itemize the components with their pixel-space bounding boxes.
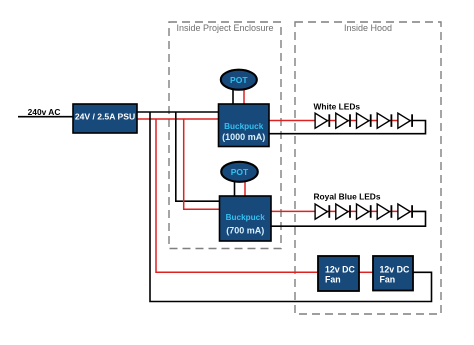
wire POT2 black lead [234,181,236,197]
svg-text:Inside Project Enclosure: Inside Project Enclosure [176,23,273,33]
royal blue LED D7 [336,204,350,219]
fan M1 (12v DC) [318,256,359,291]
svg-text:12v DC: 12v DC [380,265,410,275]
svg-text:(1000 mA): (1000 mA) [222,132,265,142]
wire PSU black output to Buckpuck 1000mA [137,111,219,113]
svg-text:White LEDs: White LEDs [314,102,361,112]
white LED D2 [336,113,350,128]
PSU 24V/2.5A [73,104,137,133]
Buckpuck driver U2 (700 mA) [220,196,272,241]
wire POT1 red lead [243,89,245,105]
potentiometer POT2 [221,162,258,182]
wire red Buckpuck2 output through royal blue LED string [271,210,413,212]
svg-text:POT: POT [231,167,249,177]
white LED D5 [398,113,412,128]
enclosure box: Inside Hood [295,22,441,314]
fan M2 (12v DC) [373,256,413,291]
white LED D3 [357,113,371,128]
royal blue LED D9 [377,204,391,219]
svg-text:Buckpuck: Buckpuck [226,213,266,222]
royal blue LED D10 [398,204,412,219]
svg-text:Buckpuck: Buckpuck [224,122,264,131]
svg-text:Fan: Fan [380,275,396,285]
enclosure box: Inside Project Enclosure [169,22,281,249]
white LED D4 [377,113,391,128]
svg-text:Fan: Fan [325,275,341,285]
svg-text:240v AC: 240v AC [28,107,61,117]
svg-text:Inside Hood: Inside Hood [344,23,392,33]
svg-text:12v DC: 12v DC [325,265,355,275]
svg-text:24V / 2.5A PSU: 24V / 2.5A PSU [75,111,135,121]
wire black return trunk (down, along bottom, up to fan 2) [150,112,432,302]
wire royal blue LED string black return to Buckpuck2 [271,211,426,226]
wire POT1 black lead [232,89,234,105]
white LED D1 [315,113,329,128]
wire POT2 red lead [244,181,246,197]
wire red link fan1 to fan2 [359,271,374,273]
royal blue LED D8 [357,204,371,219]
wire PSU red output to Buckpuck 1000mA [137,118,219,120]
wire red feed to fan 1 [156,119,319,272]
svg-text:POT: POT [230,75,248,85]
wire 240v AC mains feed [18,116,73,118]
wire red Buckpuck1 output through white LED string [270,120,413,122]
potentiometer POT1 [221,70,257,90]
wire red branch to Buckpuck 700mA [184,119,220,209]
svg-text:(700 mA): (700 mA) [226,226,264,236]
Buckpuck driver U1 (1000 mA) [219,104,270,147]
wire black branch to Buckpuck 700mA [176,112,220,201]
royal blue LED D6 [315,204,329,219]
wire white LED string black return to Buckpuck1 [270,121,426,134]
svg-text:Royal Blue LEDs: Royal Blue LEDs [314,192,381,202]
